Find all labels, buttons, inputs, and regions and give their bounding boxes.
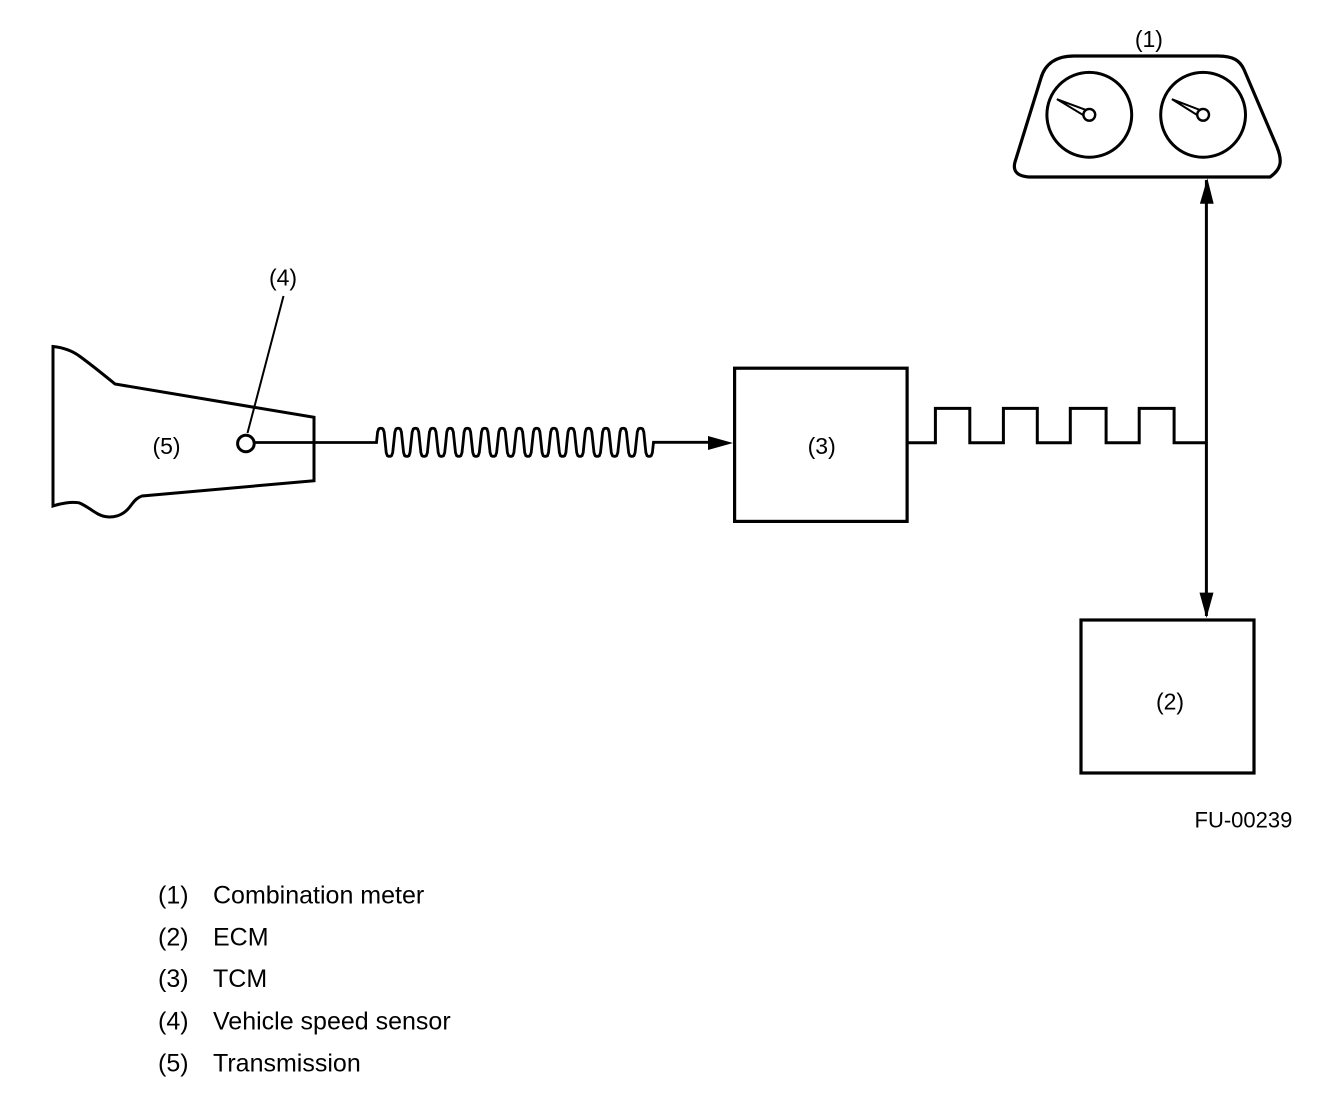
- svg-text:(1): (1): [158, 882, 189, 910]
- gauge right needle: [1172, 99, 1209, 121]
- TCM box U3: [735, 368, 908, 521]
- svg-text:(3): (3): [808, 433, 836, 459]
- legend item 5: [158, 1050, 361, 1078]
- gauge left dial: [1047, 72, 1132, 157]
- sensor terminal circle: [238, 435, 255, 452]
- gauge right dial: [1161, 72, 1246, 157]
- arrowhead down into ECM: [1200, 593, 1214, 618]
- wire vertical meter-ECM: [1205, 180, 1208, 616]
- label (5): [152, 433, 180, 459]
- svg-text:(3): (3): [158, 965, 189, 993]
- combination meter U1 body: [1014, 56, 1280, 177]
- legend item 2: [158, 924, 269, 952]
- label (2): [1156, 689, 1184, 715]
- legend item 4: [158, 1008, 451, 1036]
- svg-text:(4): (4): [158, 1008, 189, 1036]
- vehicle speed sensor pointer line: [248, 296, 284, 433]
- figure number FU-00239: [1195, 808, 1293, 833]
- vehicle speed sensor coil wire: [255, 428, 709, 456]
- svg-text:TCM: TCM: [213, 965, 267, 993]
- svg-text:(1): (1): [1135, 26, 1163, 52]
- svg-text:(2): (2): [158, 924, 189, 952]
- gauge left needle: [1057, 99, 1095, 121]
- svg-text:FU-00239: FU-00239: [1195, 808, 1293, 833]
- svg-text:(4): (4): [269, 265, 297, 291]
- label (1): [1135, 26, 1163, 52]
- svg-text:(5): (5): [152, 433, 180, 459]
- svg-text:ECM: ECM: [213, 924, 269, 952]
- legend item 3: [158, 965, 267, 993]
- legend item 1: [158, 882, 424, 910]
- svg-text:Vehicle speed sensor: Vehicle speed sensor: [213, 1008, 451, 1036]
- wire square-wave TCM to vertical line: [907, 408, 1206, 442]
- label (4): [269, 265, 297, 291]
- svg-text:Transmission: Transmission: [213, 1050, 361, 1078]
- ECM box U2: [1081, 620, 1254, 773]
- svg-text:Combination meter: Combination meter: [213, 882, 424, 910]
- label (3): [808, 433, 836, 459]
- svg-text:(5): (5): [158, 1050, 189, 1078]
- arrowhead into TCM: [708, 436, 733, 450]
- transmission body: [53, 347, 314, 517]
- arrowhead up into meter: [1200, 178, 1214, 203]
- svg-text:(2): (2): [1156, 689, 1184, 715]
